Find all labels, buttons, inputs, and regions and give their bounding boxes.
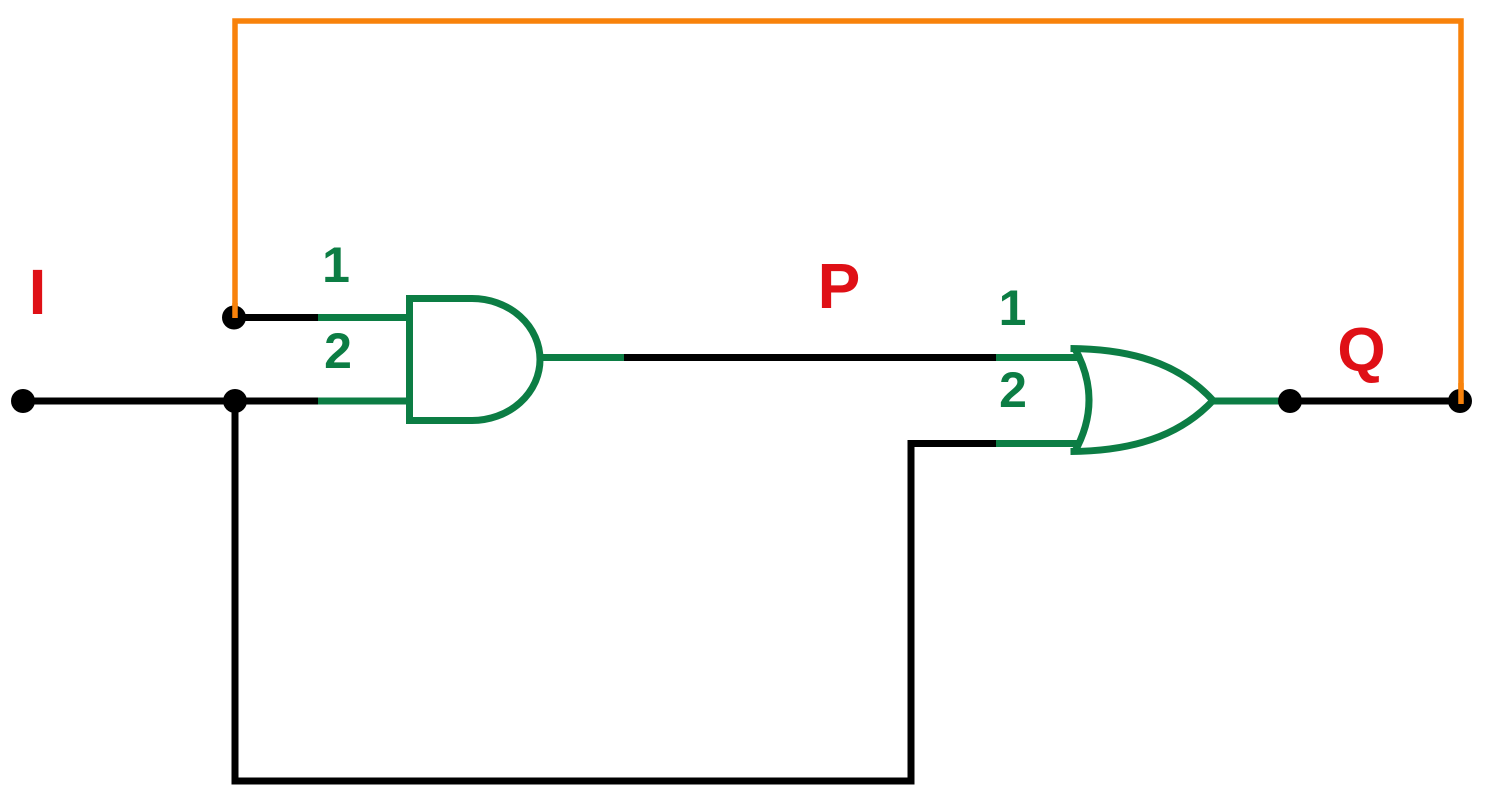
svg-text:P: P [818,250,861,322]
svg-text:2: 2 [999,362,1027,418]
node junction OR output [1278,389,1302,413]
wire orange stub over Q terminal node [1458,383,1464,404]
wire green OR input 2 pin [996,440,1078,447]
svg-text:Q: Q [1337,316,1385,385]
wire black input I horizontal [23,398,322,405]
AND gate U1 [410,299,541,421]
wire green OR input 1 pin [996,354,1078,361]
wire black OR output to Q terminal [1278,398,1460,405]
svg-text:1: 1 [999,280,1027,336]
wire black feedback loop bottom [235,401,998,781]
wire black node to AND input 1 [235,314,322,321]
wire black P net AND output to OR input 1 [620,354,1000,361]
node output terminal Q [1448,389,1472,413]
wire orange feedback Q to node [235,21,1461,399]
node junction feedback to AND input 1 [222,306,246,330]
wire green AND output pin [538,354,624,361]
OR gate U2 [1071,347,1214,453]
node input terminal I [11,389,35,413]
wire green OR output pin [1212,398,1282,405]
svg-text:1: 1 [322,237,350,293]
wire green AND input 2 pin [318,398,407,405]
wire green AND input 1 pin [318,314,407,321]
svg-text:2: 2 [324,323,352,379]
svg-text:I: I [29,256,47,328]
wire orange stub over node at AND input 1 [232,303,238,318]
node junction on input net [223,389,247,413]
